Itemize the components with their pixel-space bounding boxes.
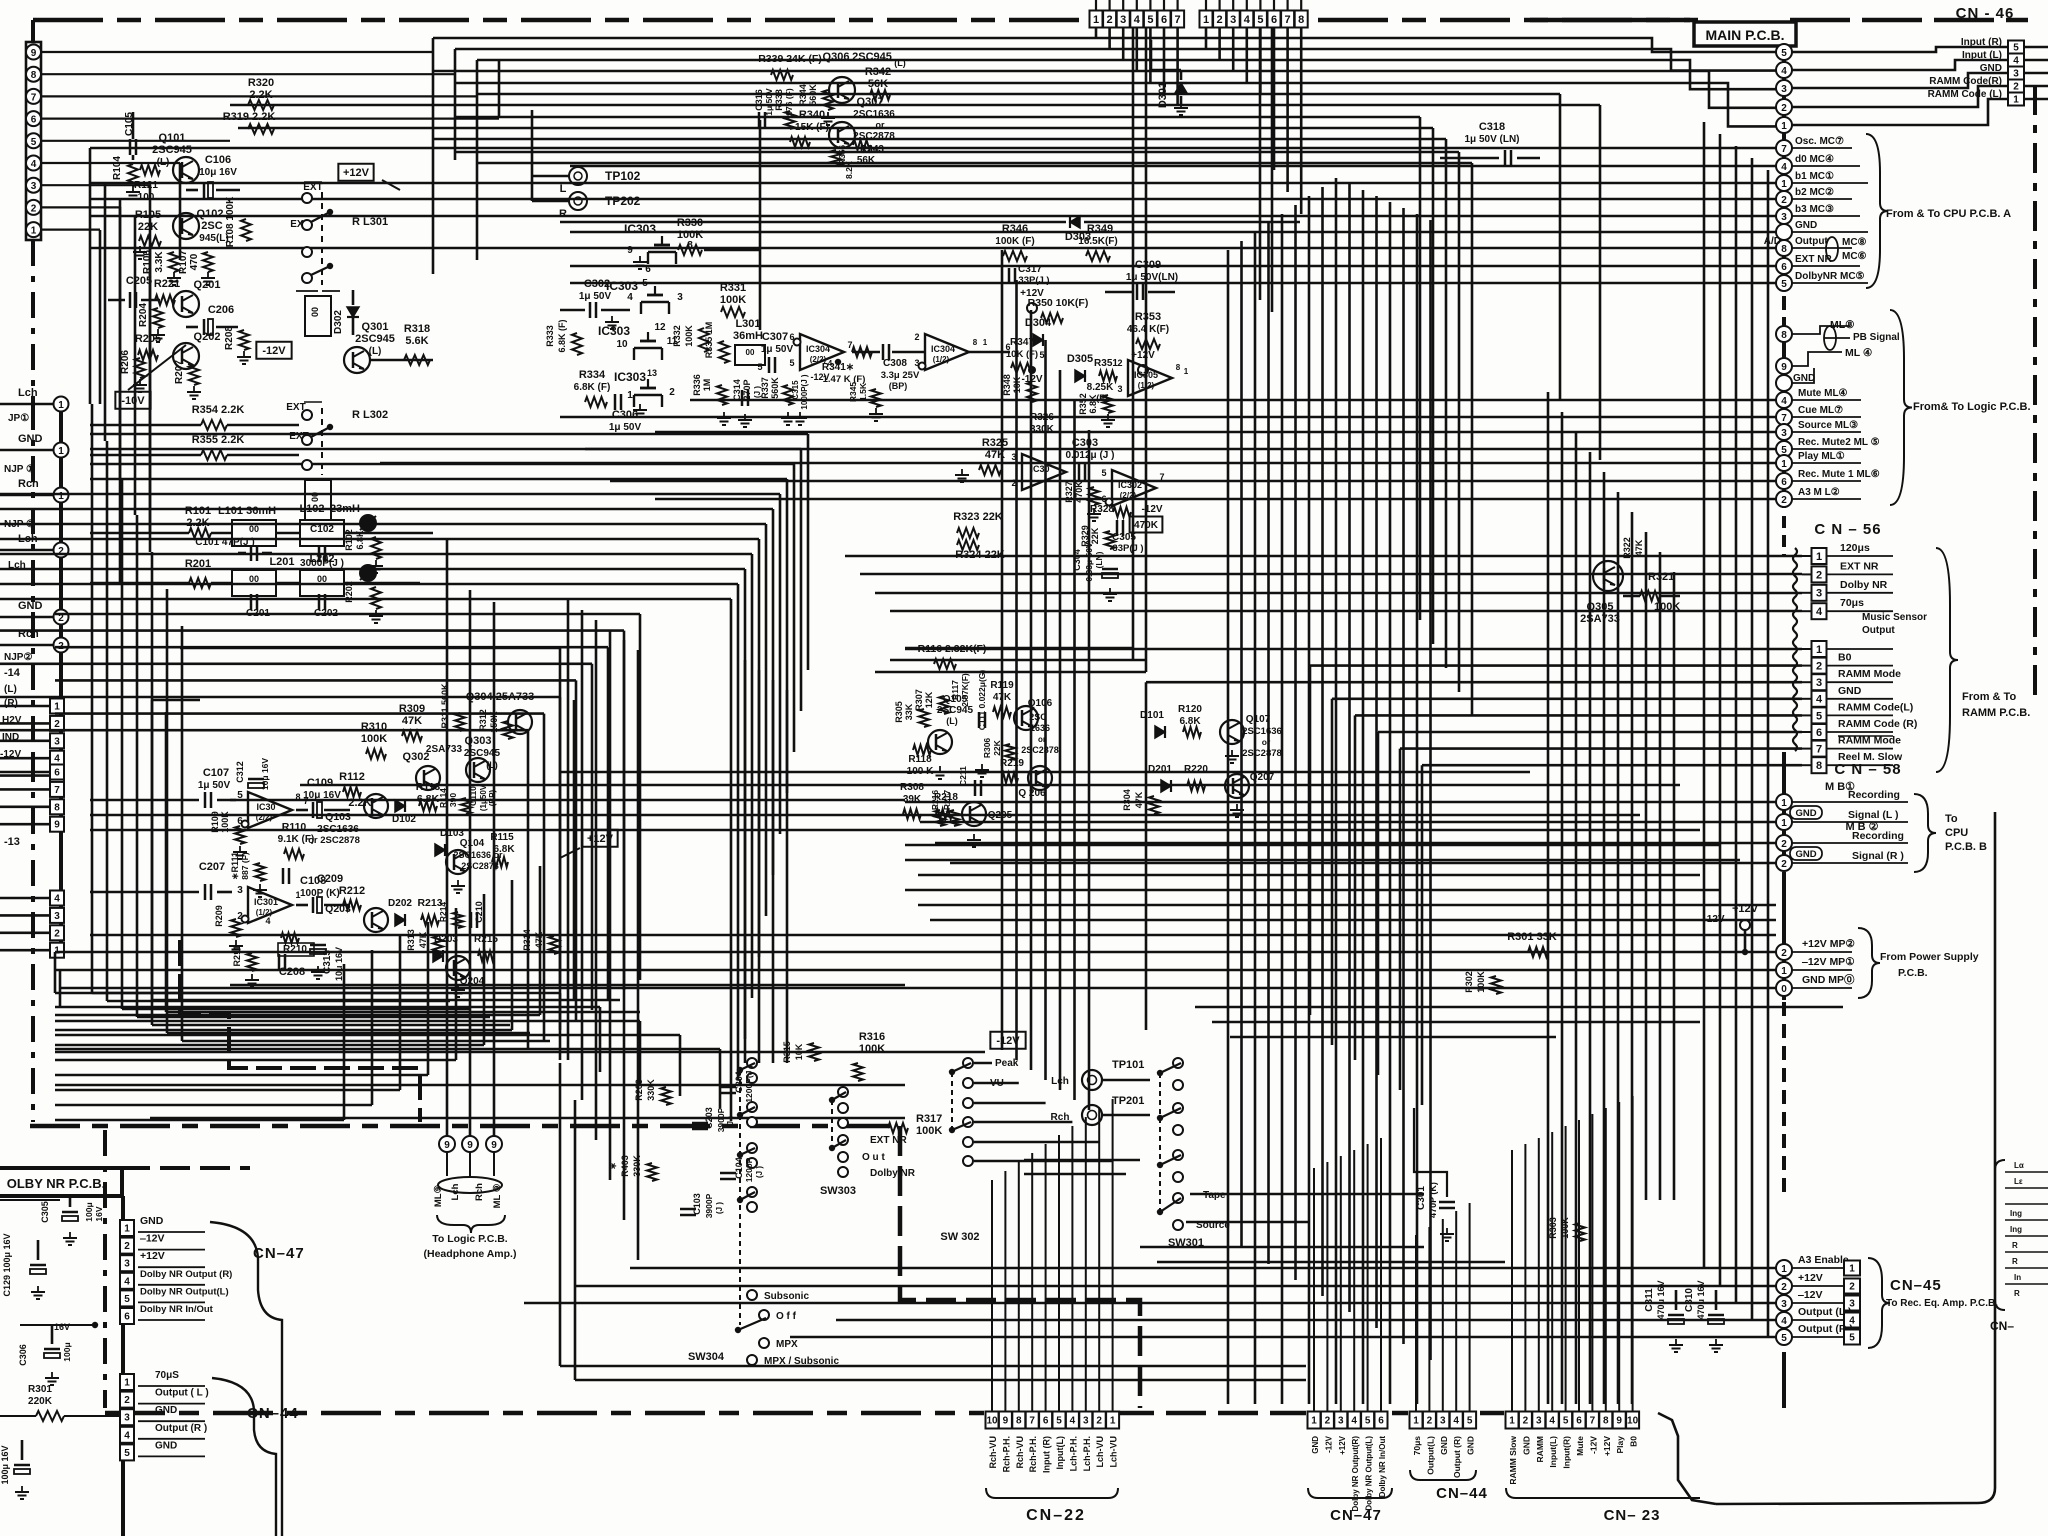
svg-text:Dolby NR Output(L): Dolby NR Output(L) xyxy=(140,1286,229,1297)
svg-text:R342: R342 xyxy=(865,66,891,78)
svg-text:(1μ50V: (1μ50V xyxy=(479,784,488,811)
svg-text:47K: 47K xyxy=(993,692,1012,703)
svg-text:-12V: -12V xyxy=(1141,504,1162,515)
svg-text:R211: R211 xyxy=(232,945,242,966)
svg-text:L101 36mH: L101 36mH xyxy=(218,505,276,517)
svg-text:100μ: 100μ xyxy=(62,1342,72,1361)
wire filter row xyxy=(90,532,189,535)
svg-text:9: 9 xyxy=(1003,1416,1009,1427)
svg-text:2: 2 xyxy=(1849,1282,1855,1293)
svg-text:R353: R353 xyxy=(1135,311,1161,323)
svg-text:23mH: 23mH xyxy=(330,503,360,515)
wire ML9 risers xyxy=(446,540,449,1136)
svg-text:Dolby NR In/Out: Dolby NR In/Out xyxy=(140,1304,214,1315)
svg-text:C308: C308 xyxy=(883,358,907,369)
svg-text:4: 4 xyxy=(2013,56,2019,67)
svg-text:6: 6 xyxy=(1576,1416,1582,1427)
wire mid nest 2 xyxy=(55,613,640,616)
svg-text:1: 1 xyxy=(1781,121,1787,132)
svg-text:2: 2 xyxy=(669,387,675,398)
svg-text:Lch-VU: Lch-VU xyxy=(1109,1436,1119,1468)
svg-text:+12V: +12V xyxy=(587,833,614,845)
svg-text:7: 7 xyxy=(1781,413,1787,424)
svg-text:RAMM: RAMM xyxy=(1535,1436,1545,1462)
svg-text:C311: C311 xyxy=(1644,1288,1655,1312)
svg-text:R305: R305 xyxy=(894,701,904,723)
svg-text:13: 13 xyxy=(647,368,657,378)
svg-text:or: or xyxy=(1038,735,1046,744)
svg-text:2: 2 xyxy=(31,203,37,214)
svg-text:100K: 100K xyxy=(916,1125,942,1137)
svg-text:D101: D101 xyxy=(1140,710,1164,721)
svg-text:R112: R112 xyxy=(339,771,365,783)
svg-text:C314: C314 xyxy=(732,379,742,401)
svg-text:3: 3 xyxy=(237,885,243,896)
svg-text:8: 8 xyxy=(1816,760,1822,772)
svg-text:B0: B0 xyxy=(1629,1436,1639,1447)
svg-text:GND: GND xyxy=(1795,808,1816,819)
svg-text:100K: 100K xyxy=(684,325,694,347)
svg-text:Rch-P.H.: Rch-P.H. xyxy=(1001,1436,1011,1472)
svg-text:Music Sensor: Music Sensor xyxy=(1862,612,1927,623)
svg-text:R347: R347 xyxy=(1010,337,1034,348)
svg-text:100K: 100K xyxy=(1476,971,1486,993)
svg-text:330K: 330K xyxy=(646,1079,656,1101)
svg-text:GND: GND xyxy=(18,433,43,445)
svg-text:5.6K: 5.6K xyxy=(405,335,428,347)
svg-text:Q304 25A733: Q304 25A733 xyxy=(466,691,535,703)
svg-text:Lch: Lch xyxy=(450,1183,461,1200)
svg-text:6: 6 xyxy=(1271,14,1277,26)
svg-text:2SC: 2SC xyxy=(1029,712,1047,722)
svg-text:IC305: IC305 xyxy=(1134,370,1158,380)
svg-text:3: 3 xyxy=(1781,1299,1787,1310)
svg-text:R212: R212 xyxy=(339,885,365,897)
svg-text:R303: R303 xyxy=(1548,1217,1558,1239)
svg-text:R120: R120 xyxy=(1178,704,1202,715)
svg-text:MAIN P.C.B.: MAIN P.C.B. xyxy=(1705,27,1784,43)
-12V mid label xyxy=(990,1032,1025,1049)
wire top strip drops xyxy=(1095,28,1098,39)
svg-text:Q303: Q303 xyxy=(465,735,492,747)
wire ML bus xyxy=(690,399,1776,402)
connector left square pins 1-5 xyxy=(50,699,64,714)
svg-text:‒12V: ‒12V xyxy=(139,1233,165,1245)
wire MP bus xyxy=(55,951,1776,954)
switch SW303 xyxy=(838,1087,848,1097)
svg-text:C205: C205 xyxy=(126,275,152,287)
svg-text:C202: C202 xyxy=(314,608,338,619)
svg-text:Rch-P.H.: Rch-P.H. xyxy=(1028,1436,1038,1472)
svg-text:C310: C310 xyxy=(1684,1288,1695,1312)
svg-text:1μ 50V(LN): 1μ 50V(LN) xyxy=(1126,272,1178,283)
svg-text:6: 6 xyxy=(645,264,651,275)
svg-text:2: 2 xyxy=(2013,82,2019,93)
svg-text:8.2K: 8.2K xyxy=(844,160,854,179)
svg-text:L202: L202 xyxy=(309,553,334,565)
svg-text:R215: R215 xyxy=(474,934,498,945)
svg-text:70μs: 70μs xyxy=(1840,597,1864,609)
svg-text:R119: R119 xyxy=(990,680,1014,691)
svg-text:2: 2 xyxy=(1781,103,1787,114)
svg-text:R355 2.2K: R355 2.2K xyxy=(192,434,245,446)
svg-text:Osc. MC⑦: Osc. MC⑦ xyxy=(1795,136,1844,147)
svg-text:R325: R325 xyxy=(982,437,1008,449)
svg-text:2: 2 xyxy=(1117,358,1122,368)
brace From To Logic PCB xyxy=(1890,310,1912,505)
svg-text:3: 3 xyxy=(54,911,60,922)
svg-text:2: 2 xyxy=(1816,569,1822,581)
svg-text:C201: C201 xyxy=(246,608,270,619)
svg-text:C101 47P(J ): C101 47P(J ) xyxy=(195,537,254,548)
svg-text:R210: R210 xyxy=(283,944,307,955)
svg-text:CN–45: CN–45 xyxy=(1890,1277,1942,1294)
svg-text:∗: ∗ xyxy=(608,1162,618,1170)
connector CN-22 xyxy=(986,1412,999,1429)
svg-text:EXT NR: EXT NR xyxy=(870,1135,907,1146)
svg-text:-12V: -12V xyxy=(810,372,829,382)
svg-text:C306: C306 xyxy=(18,1344,28,1366)
svg-text:From Power Supply: From Power Supply xyxy=(1880,951,1979,963)
svg-text:10μ 16V: 10μ 16V xyxy=(303,790,341,801)
svg-text:16V: 16V xyxy=(94,1206,104,1221)
svg-text:R218: R218 xyxy=(934,792,958,803)
svg-text:R302: R302 xyxy=(1464,971,1474,993)
svg-text:1μ 50V: 1μ 50V xyxy=(198,780,231,791)
svg-text:3: 3 xyxy=(124,1259,130,1270)
svg-text:2: 2 xyxy=(1523,1416,1529,1427)
svg-text:7: 7 xyxy=(54,785,60,796)
svg-text:CN–44: CN–44 xyxy=(1436,1485,1488,1502)
svg-text:Q203: Q203 xyxy=(325,903,351,915)
svg-text:GND: GND xyxy=(1311,1436,1320,1454)
svg-text:100μ 16V: 100μ 16V xyxy=(0,1445,10,1484)
wire right border xyxy=(2033,85,2037,700)
wire switch verticals xyxy=(567,600,570,1060)
svg-text:4: 4 xyxy=(1070,1416,1076,1427)
svg-text:TP201: TP201 xyxy=(1112,1095,1144,1107)
svg-text:R340: R340 xyxy=(799,109,825,121)
connector CN-56 lower 1-8 xyxy=(1812,641,1827,657)
svg-text:C103: C103 xyxy=(692,1193,702,1215)
svg-text:6: 6 xyxy=(54,768,60,779)
svg-text:5: 5 xyxy=(1056,1416,1062,1427)
op-amp IC302 xyxy=(1112,470,1156,506)
svg-text:To: To xyxy=(1945,813,1958,825)
svg-text:1μ 50V: 1μ 50V xyxy=(579,291,612,302)
svg-text:470P (K): 470P (K) xyxy=(1428,1182,1438,1218)
svg-text:CN–22: CN–22 xyxy=(1026,1507,1086,1524)
svg-text:MPX: MPX xyxy=(776,1339,798,1350)
svg-text:R346: R346 xyxy=(1002,223,1028,235)
svg-text:9: 9 xyxy=(54,820,60,831)
wire top border after MAIN PCB to CN-46 xyxy=(1790,18,2028,23)
svg-text:RAMM Mode: RAMM Mode xyxy=(1838,668,1901,680)
svg-text:1: 1 xyxy=(1203,14,1209,26)
svg-text:R350 10K(F): R350 10K(F) xyxy=(1028,297,1089,309)
svg-text:3: 3 xyxy=(1120,14,1126,26)
capacitor C308 xyxy=(882,344,885,360)
svg-text:3900P: 3900P xyxy=(716,1107,726,1132)
svg-text:4: 4 xyxy=(124,1430,130,1441)
svg-text:330K: 330K xyxy=(1030,424,1055,435)
wire strip2 drops xyxy=(1205,28,1208,50)
svg-text:100: 100 xyxy=(138,192,155,203)
svg-text:47K: 47K xyxy=(1634,539,1644,556)
svg-text:R316: R316 xyxy=(859,1031,885,1043)
svg-text:Tape: Tape xyxy=(1203,1190,1226,1201)
svg-text:R328: R328 xyxy=(1090,504,1114,515)
diode D203 xyxy=(433,950,443,962)
svg-text:2: 2 xyxy=(1781,1282,1787,1293)
op-amp IC304 xyxy=(800,334,844,370)
svg-text:(BP): (BP) xyxy=(488,789,497,806)
svg-text:C206: C206 xyxy=(208,304,234,316)
svg-text:1μ 50V: 1μ 50V xyxy=(761,344,794,355)
svg-text:00: 00 xyxy=(249,524,259,534)
svg-text:A/D: A/D xyxy=(1764,236,1781,247)
DOLBY NR PCB box xyxy=(0,1168,122,1196)
svg-text:1: 1 xyxy=(124,1224,130,1235)
svg-text:Ing: Ing xyxy=(2010,1209,2022,1218)
wire SW304 wrap xyxy=(559,1063,562,1366)
svg-text:-12V: -12V xyxy=(1021,374,1042,385)
svg-text:9: 9 xyxy=(31,48,37,59)
svg-text:Q205: Q205 xyxy=(988,810,1013,821)
svg-text:CN - 46: CN - 46 xyxy=(1956,5,2015,22)
svg-text:47K: 47K xyxy=(402,715,422,727)
470K boxed xyxy=(1130,517,1163,533)
svg-text:NJP ①: NJP ① xyxy=(4,464,35,475)
svg-text:2: 2 xyxy=(1096,1416,1102,1427)
connector CN-44 bottom xyxy=(1410,1412,1423,1429)
svg-text:4: 4 xyxy=(627,292,633,303)
svg-text:100μ: 100μ xyxy=(84,1202,94,1221)
svg-text:0: 0 xyxy=(1781,984,1787,995)
svg-text:1μ 50V: 1μ 50V xyxy=(609,422,642,433)
svg-text:3: 3 xyxy=(1536,1416,1542,1427)
svg-text:16V: 16V xyxy=(54,1322,70,1332)
wire CN-58 bus xyxy=(905,801,1776,804)
brace CN-44 left xyxy=(212,1378,276,1536)
svg-text:GND: GND xyxy=(18,600,43,612)
svg-text:R344: R344 xyxy=(798,84,808,106)
svg-text:1: 1 xyxy=(1781,459,1787,470)
svg-text:1: 1 xyxy=(31,226,37,237)
svg-text:8: 8 xyxy=(1781,330,1787,341)
svg-text:8: 8 xyxy=(54,802,60,813)
svg-text:6: 6 xyxy=(1781,262,1787,273)
svg-text:Q106: Q106 xyxy=(1028,698,1053,709)
wire left border vertical xyxy=(31,20,35,42)
svg-text:33P(J ): 33P(J ) xyxy=(1018,275,1049,286)
transistor Q305 xyxy=(1593,561,1623,591)
svg-text:R: R xyxy=(2012,1257,2018,1266)
svg-text:Rch: Rch xyxy=(18,478,39,490)
svg-text:5: 5 xyxy=(1781,279,1787,290)
connector CN-44 left xyxy=(120,1374,134,1390)
svg-text:1: 1 xyxy=(2013,95,2019,106)
svg-text:D103: D103 xyxy=(440,828,464,839)
svg-text:C209: C209 xyxy=(317,873,343,885)
+12V label xyxy=(338,164,373,181)
svg-text:b2 MC②: b2 MC② xyxy=(1795,187,1834,198)
svg-text:560K: 560K xyxy=(770,377,780,399)
svg-text:70μS: 70μS xyxy=(155,1370,179,1381)
svg-text:(J ): (J ) xyxy=(726,1116,735,1128)
svg-text:Q103: Q103 xyxy=(325,811,351,823)
connector CN-45 xyxy=(1782,1262,1786,1340)
svg-text:Signal (R ): Signal (R ) xyxy=(1852,850,1904,862)
svg-text:MC⑥: MC⑥ xyxy=(1842,251,1867,262)
svg-text:100K: 100K xyxy=(1654,601,1680,613)
svg-text:R332: R332 xyxy=(672,325,682,347)
svg-text:R105: R105 xyxy=(135,209,161,221)
svg-text:100K: 100K xyxy=(677,229,703,241)
svg-text:8: 8 xyxy=(1603,1416,1609,1427)
svg-text:1: 1 xyxy=(58,491,64,502)
svg-text:3: 3 xyxy=(124,1413,130,1424)
svg-text:Input(L): Input(L) xyxy=(1548,1436,1558,1468)
wire mid verticals xyxy=(1001,250,1004,1050)
svg-text:100K: 100K xyxy=(859,1043,885,1055)
left JP pins xyxy=(59,396,63,955)
svg-text:CPU: CPU xyxy=(1945,827,1968,839)
svg-text:8: 8 xyxy=(973,338,978,347)
svg-text:L102: L102 xyxy=(299,503,324,515)
svg-text:TP102: TP102 xyxy=(605,169,641,183)
svg-text:5: 5 xyxy=(237,790,243,801)
svg-text:1: 1 xyxy=(1311,1416,1317,1427)
svg-text:P.C.B.: P.C.B. xyxy=(1898,967,1928,979)
svg-text:2SC1636: 2SC1636 xyxy=(853,109,895,120)
switch SW304 bottom xyxy=(747,1290,757,1300)
svg-text:O f f: O f f xyxy=(776,1311,797,1322)
svg-text:Recording: Recording xyxy=(1852,830,1904,842)
svg-text:3: 3 xyxy=(1781,84,1787,95)
svg-text:d0 MC④: d0 MC④ xyxy=(1795,154,1834,165)
svg-text:Q202: Q202 xyxy=(194,331,221,343)
connector CN-46 right edge xyxy=(2008,41,2024,54)
svg-text:5: 5 xyxy=(1147,14,1153,26)
svg-text:7: 7 xyxy=(1590,1416,1596,1427)
svg-text:+12V: +12V xyxy=(140,1250,165,1262)
svg-text:JP①: JP① xyxy=(8,413,29,424)
svg-text:3.3K: 3.3K xyxy=(154,251,165,273)
svg-text:R: R xyxy=(2012,1241,2018,1250)
wire central verticals xyxy=(1227,250,1230,1404)
svg-text:4: 4 xyxy=(54,894,60,905)
svg-text:D303: D303 xyxy=(1065,231,1091,243)
svg-text:70μs: 70μs xyxy=(1412,1436,1422,1456)
svg-text:6.8K (F): 6.8K (F) xyxy=(574,382,611,393)
svg-text:GND: GND xyxy=(1439,1436,1449,1455)
svg-text:L201: L201 xyxy=(269,556,294,568)
svg-text:C312: C312 xyxy=(235,761,245,783)
svg-text:-12V: -12V xyxy=(996,1035,1020,1047)
svg-text:1: 1 xyxy=(1816,551,1822,563)
svg-text:00: 00 xyxy=(310,492,320,502)
svg-text:2: 2 xyxy=(1325,1416,1331,1427)
svg-text:1: 1 xyxy=(1781,818,1787,829)
svg-text:R333: R333 xyxy=(545,325,555,347)
svg-text:6.8K: 6.8K xyxy=(493,844,515,855)
svg-text:b3 MC③: b3 MC③ xyxy=(1795,204,1834,215)
svg-text:1: 1 xyxy=(1781,1264,1787,1275)
Q302 Q303 top xyxy=(416,766,440,790)
svg-text:8.25K: 8.25K xyxy=(1087,382,1114,393)
svg-text:R338: R338 xyxy=(774,89,784,111)
svg-text:CN–47: CN–47 xyxy=(1330,1507,1382,1524)
svg-text:B0: B0 xyxy=(1838,652,1852,664)
svg-text:PB Signal: PB Signal xyxy=(1853,332,1900,343)
svg-text:R311 560K: R311 560K xyxy=(440,683,450,729)
MAIN P.C.B. label box xyxy=(1694,22,1796,46)
CN-46 pin chain xyxy=(1782,46,1786,132)
connector left edge pins 9-1 xyxy=(26,42,41,240)
svg-text:R336: R336 xyxy=(692,374,702,396)
svg-text:4: 4 xyxy=(1453,1416,1459,1427)
brace From Power Supply xyxy=(1858,928,1880,998)
test point TP202 xyxy=(569,192,587,210)
svg-text:R206: R206 xyxy=(120,350,131,374)
svg-text:1: 1 xyxy=(1816,644,1822,656)
wire top border right solid to MAIN PCB xyxy=(1530,18,1698,23)
svg-text:D302: D302 xyxy=(333,310,344,334)
svg-text:Rch-VU: Rch-VU xyxy=(988,1436,998,1469)
svg-text:R308: R308 xyxy=(900,782,924,793)
svg-text:+12V: +12V xyxy=(1131,350,1155,361)
connector CN-47 left xyxy=(120,1220,134,1236)
svg-text:Peak: Peak xyxy=(995,1058,1019,1069)
svg-text:Subsonic: Subsonic xyxy=(764,1291,809,1302)
svg-text:EXT: EXT xyxy=(303,182,322,193)
svg-text:2SA733: 2SA733 xyxy=(426,744,463,755)
svg-text:470: 470 xyxy=(189,253,200,270)
svg-text:3: 3 xyxy=(677,292,683,303)
svg-text:390: 390 xyxy=(448,793,458,807)
svg-text:2: 2 xyxy=(54,719,60,730)
svg-text:10: 10 xyxy=(986,1416,998,1427)
svg-text:-12V: -12V xyxy=(1324,1435,1333,1453)
svg-text:R403: R403 xyxy=(620,1155,630,1177)
svg-text:5: 5 xyxy=(1467,1416,1473,1427)
connector strip top-left 1-7 xyxy=(1090,11,1103,28)
switch SW304 mid xyxy=(747,1143,757,1153)
-10V label xyxy=(115,392,150,409)
svg-text:R348: R348 xyxy=(1002,374,1012,396)
brace From To CPU PCB A xyxy=(1866,134,1888,288)
svg-text:R207: R207 xyxy=(174,360,185,384)
svg-text:C303: C303 xyxy=(1072,437,1098,449)
svg-text:2: 2 xyxy=(58,546,64,557)
svg-text:4: 4 xyxy=(1781,1316,1787,1327)
svg-text:SW301: SW301 xyxy=(1168,1237,1204,1249)
svg-text:1M: 1M xyxy=(702,379,712,392)
svg-text:R345: R345 xyxy=(848,382,858,403)
svg-text:3: 3 xyxy=(2013,69,2019,80)
svg-text:GND: GND xyxy=(1795,849,1816,860)
svg-text:2: 2 xyxy=(124,1395,130,1406)
svg-text:R320: R320 xyxy=(248,77,274,89)
svg-text:R104: R104 xyxy=(112,156,123,180)
svg-text:0.012μ (J ): 0.012μ (J ) xyxy=(1066,450,1115,461)
svg-text:22K: 22K xyxy=(992,739,1002,755)
svg-text:100K: 100K xyxy=(220,811,230,833)
svg-text:R318: R318 xyxy=(404,323,430,335)
svg-text:-12V: -12V xyxy=(1588,1436,1598,1454)
svg-text:-14: -14 xyxy=(4,667,21,679)
